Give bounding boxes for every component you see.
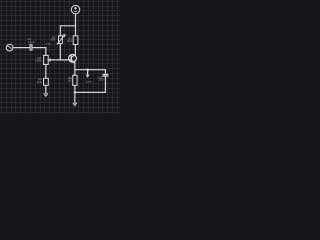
- wire pot to R4: [45, 65, 47, 79]
- wire emitter down: [74, 63, 76, 70]
- wire RE to bottom rail: [74, 85, 76, 92]
- ground arrow left: [44, 85, 48, 96]
- wire VS to C1: [13, 47, 30, 49]
- svg-text:50k: 50k: [50, 38, 55, 42]
- svg-text:1kΩ: 1kΩ: [36, 80, 42, 84]
- svg-text:1mA: 1mA: [86, 80, 92, 84]
- wire emitter rail: [75, 69, 106, 71]
- ac source VS: [6, 44, 13, 51]
- capacitor CE output: [103, 70, 108, 93]
- wire base node: [48, 59, 71, 61]
- wire V1 to rail: [75, 14, 77, 26]
- svg-text:1kΩ: 1kΩ: [67, 79, 73, 83]
- resistor R1 collector: [73, 36, 78, 45]
- svg-text:4.7k: 4.7k: [46, 42, 52, 46]
- bottom rail: [75, 91, 106, 93]
- wire R1 to Q1 collector: [74, 45, 76, 56]
- wire R2 to base node: [59, 43, 61, 60]
- svg-text:2kΩ: 2kΩ: [67, 39, 73, 43]
- resistor R4: [44, 78, 49, 85]
- transistor Q1: [69, 54, 77, 63]
- potentiometer VR1: [44, 55, 51, 64]
- resistor RE: [73, 75, 77, 85]
- wire top rail: [60, 25, 75, 27]
- svg-text:10u: 10u: [98, 78, 103, 82]
- wire emitter node to RE: [74, 70, 76, 76]
- ground arrow right: [73, 92, 77, 105]
- junction dot bottom: [74, 91, 77, 94]
- current arrow: [86, 70, 89, 77]
- wire C1 to elbow and down to pot: [32, 48, 46, 56]
- wire rail down to RV2: [59, 26, 61, 36]
- wire rail to R1: [75, 26, 77, 36]
- capacitor C1: [30, 44, 32, 50]
- svg-text:100k: 100k: [35, 59, 42, 63]
- svg-text:10uF: 10uF: [28, 40, 35, 44]
- node emitter rail junction: [86, 68, 89, 71]
- dc source V1: [71, 5, 80, 14]
- variable resistor R2: [57, 35, 65, 44]
